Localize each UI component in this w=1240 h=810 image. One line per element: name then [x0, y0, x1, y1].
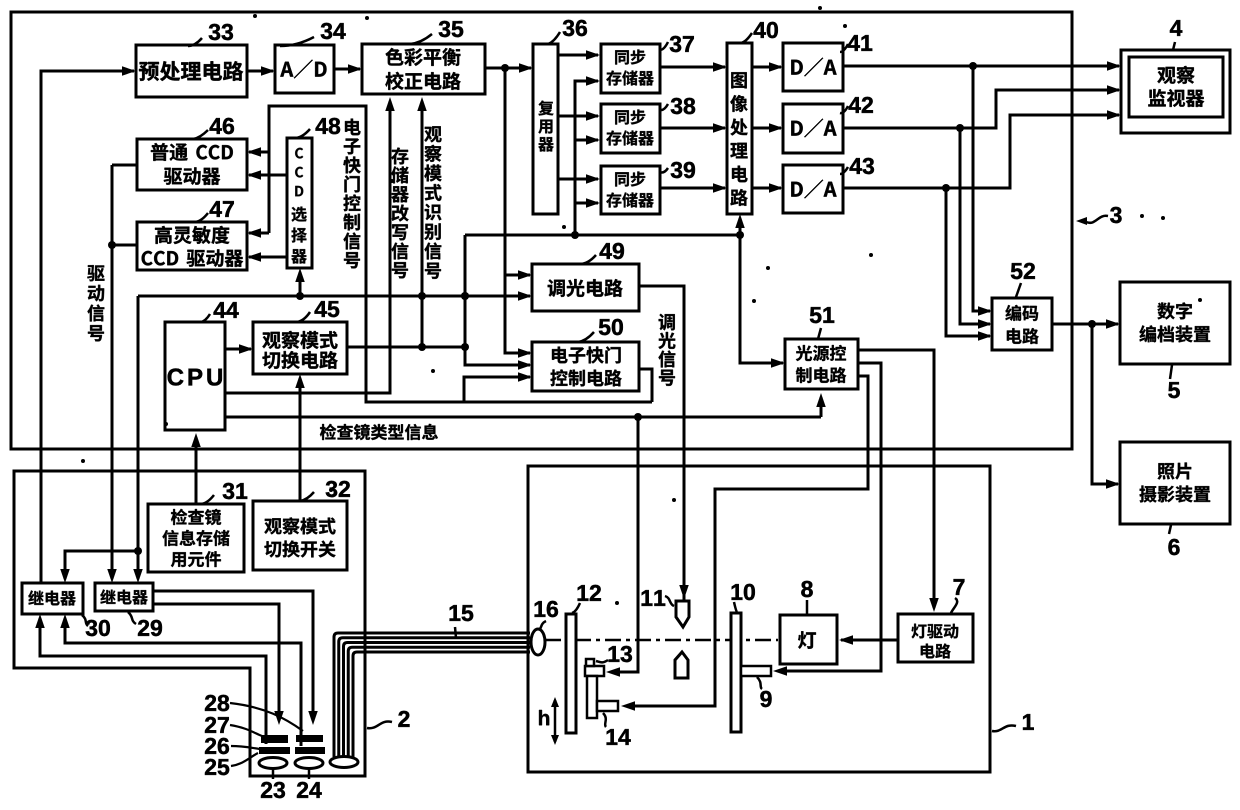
label 12 [572, 603, 580, 613]
wire D/A 43 output to monitor [843, 115, 1119, 188]
box 41 D/A converter R [783, 43, 843, 91]
box 51 light source control circuit [785, 339, 858, 389]
branch up into 50 input [464, 377, 530, 402]
label 15 [455, 627, 456, 638]
wire 34 to 35 [334, 68, 360, 71]
label 33 [188, 38, 202, 46]
label 1 with squiggle leader [992, 725, 1016, 731]
label 34 [280, 37, 314, 46]
light guide end face [330, 757, 358, 768]
condenser plate 10 [731, 613, 741, 732]
wire 45 output to 35 observation mode recognition [347, 346, 465, 349]
box 37 sync memory R [601, 44, 660, 93]
wire video signal from relay 30 up to box 33 [41, 71, 134, 583]
label 47 [194, 213, 208, 222]
box 40 image processing circuit [727, 43, 752, 214]
wire D/A 42 output to monitor [843, 90, 1119, 128]
label 6 [1169, 525, 1171, 534]
box 33 pre-processing circuit [136, 45, 247, 97]
diaphragm blade 11 lower [675, 652, 688, 678]
label 3 with leader arrow [1086, 216, 1108, 223]
wire 36 outputs to sync memories [558, 54, 598, 57]
box 39 sync memory B [601, 166, 660, 214]
label 32 [300, 492, 314, 501]
vertical label: light control signal [659, 314, 675, 331]
wire 48 selector stubs to 46/47 [249, 174, 287, 177]
label 51 [818, 328, 821, 339]
label 44 [200, 314, 210, 322]
vertical label: electronic shutter control signal [345, 119, 361, 136]
box 8 lamp [780, 615, 837, 664]
label 7 with squiggle [951, 598, 957, 613]
arrow up into 48 bottom [299, 272, 302, 296]
vertical label: memory rewrite signal [391, 148, 408, 165]
wire 51 to sensor 9 [779, 363, 881, 671]
wire 33 to 34 [247, 70, 273, 73]
wire 49 output dimming signal to diaphragm 11 [639, 286, 684, 603]
stub into 47 [249, 232, 269, 235]
label 41 [840, 44, 848, 52]
wire drive signal x112 from 46/47 to relay 29 [112, 164, 137, 167]
label 42 [840, 106, 848, 113]
stub into 46 [249, 151, 269, 154]
wire relay 29 outputs to scope tip CCDs [153, 591, 313, 721]
label 39 [660, 168, 668, 173]
CCD chip 27 (right stack upper plate) [296, 735, 323, 742]
label 4 [1173, 42, 1175, 50]
label 2 with squiggle leader [367, 721, 392, 728]
slide bar 14 and bracket [587, 676, 597, 718]
objective lens 23 [259, 758, 287, 769]
box 31 scope information storage element [148, 504, 244, 572]
branch down to mirror sensor 13 [612, 417, 638, 672]
cover glass 26 (left stack lower plate) [259, 747, 290, 754]
vertical label: observation mode recognition signal [424, 126, 441, 142]
box 46 normal CCD driver [137, 139, 247, 190]
label 31 [200, 495, 214, 504]
wire relay 30 bottom to tip CCD glass [40, 618, 266, 744]
box 48 CCD selector (vertical) [287, 138, 312, 268]
wire arrow up into 40 bottom [739, 218, 742, 235]
box 7 lamp drive circuit [898, 614, 973, 662]
box 6 photo capture device [1120, 442, 1230, 524]
relay box 30 [22, 583, 83, 614]
wires sync memories to 40 [660, 66, 725, 69]
cover glass 25 (right stack lower plate) [295, 747, 325, 754]
label 36 [548, 32, 560, 44]
label 11 [665, 596, 674, 606]
horizontal label: scope type information [320, 424, 336, 440]
wire 31 up to CPU [195, 437, 198, 504]
CCD chip 28 (left stack upper plate) [261, 735, 288, 743]
wires 40 to D/A converters [752, 66, 781, 69]
height arrow h [554, 700, 557, 742]
wire y296 mode line with 48 arrow and relays branch [137, 296, 140, 551]
wire G to encoder 52 [960, 128, 990, 324]
lens 16 [531, 629, 545, 655]
box 38 sync memory G [601, 104, 660, 153]
wire from 50 output down to net [639, 369, 652, 402]
light guide fiber bundle 15 [334, 633, 530, 757]
wire lamp drive 7 to lamp 8 [841, 639, 898, 642]
wire branch x505 to 49 and 50 [505, 68, 530, 353]
label 10 [734, 602, 737, 612]
label 48 [295, 129, 310, 138]
outer frame of video processor unit 3 [11, 12, 1072, 449]
label 16 [539, 621, 546, 630]
box 44 CPU [165, 322, 225, 430]
label 43 [840, 167, 848, 174]
optical axis dash-dot line [545, 639, 778, 642]
wire scope type information bus CPU to 51 [225, 416, 821, 419]
vertical label: drive signal [87, 265, 104, 281]
objective lens 24 [295, 758, 323, 769]
box 45 observation mode switching circuit [253, 322, 347, 374]
label 29 with leader [128, 612, 136, 624]
label 40 [741, 33, 752, 43]
box 52 encoding circuit [992, 298, 1052, 350]
label 13 [596, 660, 608, 662]
sensor bracket 9 [741, 666, 771, 676]
box 43 D/A converter B [783, 165, 843, 213]
wire CPU to 45 [225, 348, 251, 351]
label 45 [297, 312, 310, 322]
scan specks [81, 459, 85, 463]
label 46 [193, 130, 208, 139]
wire from y235 down to 51 input [740, 235, 783, 363]
wire R to encoder 52 [973, 66, 990, 311]
box 35 color balance correction circuit [362, 44, 485, 94]
label 5 [1170, 365, 1172, 379]
box 42 D/A converter G [783, 104, 843, 153]
wire 52 output to digital filing device 5 [1052, 323, 1118, 326]
wire horizontal y235 to image processor and 51 [465, 234, 740, 237]
wire CPU to 35 memory rewrite [225, 101, 390, 393]
label 30 with leader [82, 615, 88, 626]
wire x465 from y235 down to 50 input [465, 235, 530, 365]
label 8 [806, 600, 809, 614]
relay box 29 [95, 583, 153, 611]
label 50 [578, 332, 594, 342]
wire 51 to lamp drive circuit 7 [858, 350, 934, 608]
box 4 observation monitor (double border) [1121, 50, 1230, 133]
label 14 [603, 713, 606, 727]
box 49 light control circuit [532, 264, 639, 311]
wire 51 to sensor 14 [627, 376, 868, 706]
label 38 [660, 104, 668, 110]
scope connector unit outline 2 (stepped) [14, 471, 365, 776]
box 34 A/D converter [275, 45, 334, 93]
box 36 multiplexer [533, 44, 558, 214]
wire D/A 41 output to monitor [843, 65, 1119, 68]
wire 32 up to 45 [299, 378, 302, 501]
wire 35 to 36 with junction [485, 67, 531, 70]
labels 25-28 with curved leaders [230, 703, 303, 731]
relay feed branch [134, 547, 142, 555]
label 49 [580, 255, 596, 264]
rotary filter plate 12 [566, 614, 576, 733]
label 35 [410, 34, 432, 44]
wire electronic shutter control signal net x366 [269, 106, 652, 402]
wire branch down to photo device 6 [1092, 324, 1118, 484]
label 52 [1016, 283, 1021, 297]
box 47 high sensitivity CCD driver [137, 222, 247, 270]
label 37 [660, 42, 668, 50]
wire comb x575 lower inputs of sync memories [575, 81, 598, 235]
box 32 observation mode switching switch [253, 501, 347, 570]
labels 23 24 with leaders [272, 769, 275, 779]
box 5 digital filing device [1120, 282, 1230, 364]
diaphragm blade 11 upper [676, 601, 689, 627]
sensor bracket 13 with small square [585, 666, 604, 676]
box 50 electronic shutter control circuit [532, 342, 639, 391]
wire B to encoder 52 [946, 188, 990, 336]
light source unit outline 1 [528, 466, 990, 772]
label 9 [757, 677, 762, 689]
